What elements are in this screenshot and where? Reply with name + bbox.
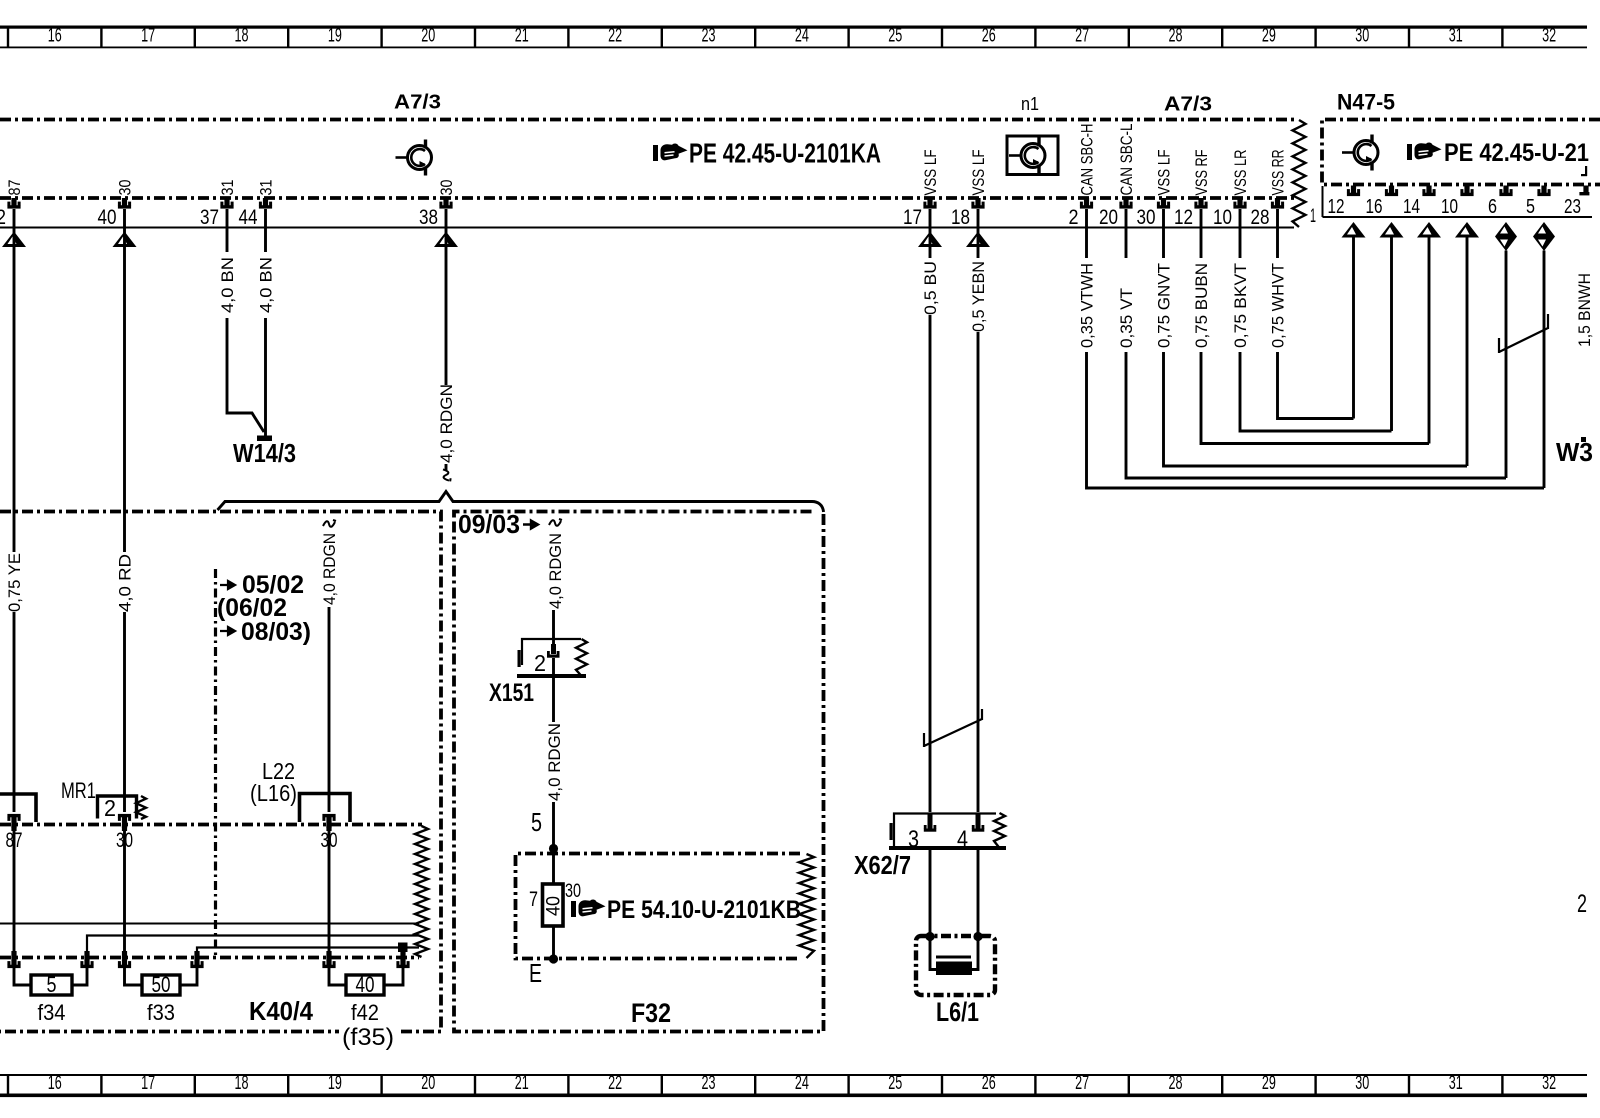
svg-text:E: E: [529, 958, 542, 988]
svg-text:(L16): (L16): [250, 780, 297, 806]
wires X62/7 to L6/1: [929, 850, 932, 936]
svg-text:A7/3: A7/3: [394, 91, 441, 114]
wire 0,75 GNVT routing: [1162, 209, 1165, 258]
sheet-reference arrow at x=978: [966, 232, 990, 248]
pin 20 of A7/3: [1119, 198, 1132, 209]
svg-text:W14/3: W14/3: [233, 438, 296, 468]
svg-text:30: 30: [116, 180, 135, 196]
A7/3 right edge zigzag: [1293, 120, 1306, 227]
pin on fuse row x=124.5: [118, 958, 131, 969]
svg-text:0,5 YEBN: 0,5 YEBN: [970, 261, 988, 332]
svg-text:22: 22: [608, 1073, 622, 1094]
svg-text:4,0 RD: 4,0 RD: [117, 554, 135, 612]
svg-text:30: 30: [1355, 1073, 1369, 1094]
pin 28 of A7/3: [1271, 198, 1284, 209]
hand + PE 42.45-U-2101KA: [653, 143, 688, 161]
svg-text:4,0 RDGN: 4,0 RDGN: [321, 533, 339, 605]
svg-text:PE 54.10-U-2101KB: PE 54.10-U-2101KB: [607, 896, 801, 924]
svg-text:25: 25: [888, 1073, 902, 1094]
wire pin87 A7/3 down: [13, 209, 16, 552]
svg-text:32: 32: [1542, 26, 1556, 47]
svg-text:30: 30: [565, 881, 581, 902]
N47-5 left pin bracket line: [1322, 186, 1324, 217]
fuse f34: [14, 968, 31, 985]
svg-text:30: 30: [1355, 26, 1369, 47]
sheet-reference arrow at x=124.5: [113, 232, 137, 248]
component A7/3 control unit box top edge: [0, 118, 1294, 122]
svg-text:31: 31: [1449, 1073, 1463, 1094]
variant divider 05/02 dash line: [214, 569, 217, 958]
wire pin17 down: [929, 209, 932, 258]
pin 12 of N47-5: [1347, 186, 1360, 197]
svg-text:44: 44: [239, 206, 258, 229]
svg-text:0,75 WHVT: 0,75 WHVT: [1270, 263, 1288, 348]
wire 0,75 BUBN routing: [1200, 209, 1203, 258]
svg-text:17: 17: [141, 26, 155, 47]
svg-text:30: 30: [437, 180, 456, 196]
svg-text:CAN SBC-H: CAN SBC-H: [1078, 124, 1097, 196]
continuation squiggle on RDGN branch in 09/03 box: [549, 519, 562, 526]
svg-text:28: 28: [1251, 206, 1270, 229]
svg-text:30: 30: [1137, 206, 1156, 229]
svg-text:26: 26: [982, 26, 996, 47]
internal vertical wires K40/4: [13, 830, 16, 952]
svg-text:28: 28: [1169, 26, 1183, 47]
svg-text:38: 38: [419, 206, 438, 229]
bus bar wires: [0, 923, 419, 925]
svg-text:16: 16: [48, 26, 62, 47]
junction on bus wire to f42: [398, 943, 408, 953]
wire 0,35 VTWH routing: [1085, 209, 1088, 258]
svg-text:1: 1: [1310, 206, 1316, 227]
svg-text:40: 40: [544, 896, 565, 916]
pin 16 of N47-5: [1385, 186, 1398, 197]
svg-text:27: 27: [1075, 1073, 1089, 1094]
svg-text:40: 40: [356, 972, 375, 997]
n1 screw box: [1007, 136, 1058, 175]
RDGN wire to L22: [323, 520, 336, 527]
svg-text:18: 18: [951, 206, 970, 229]
screw connection symbol in A7/3: [396, 140, 432, 176]
svg-text:40: 40: [98, 206, 117, 229]
wire pin37 down to W14/3: [226, 209, 229, 252]
svg-text:X151: X151: [489, 679, 534, 707]
svg-text:F32: F32: [631, 998, 671, 1028]
svg-text:19: 19: [328, 1073, 342, 1094]
svg-text:4,0 RDGN: 4,0 RDGN: [547, 533, 565, 609]
separation symbol across wires: [924, 709, 982, 747]
svg-text:27: 27: [1075, 26, 1089, 47]
svg-text:0,35 VTWH: 0,35 VTWH: [1079, 263, 1097, 348]
svg-text:16: 16: [48, 1073, 62, 1094]
svg-text:18: 18: [235, 1073, 249, 1094]
screw symbol in N47-5: [1342, 135, 1378, 171]
zigzag inner right edge K40/4: [415, 826, 428, 957]
MR1 connector box with 2: [98, 796, 137, 819]
svg-text:50: 50: [152, 972, 171, 997]
component N47-5 box: [1322, 120, 1600, 185]
svg-text:0,75 YE: 0,75 YE: [6, 553, 24, 612]
svg-text:29: 29: [1262, 1073, 1276, 1094]
junction dot F32 top: [549, 844, 558, 853]
svg-text:17: 17: [141, 1073, 155, 1094]
RDGN distribution wire: [218, 492, 824, 513]
svg-text:17: 17: [903, 206, 922, 229]
svg-text:22: 22: [608, 26, 622, 47]
svg-text:19: 19: [328, 26, 342, 47]
svg-text:n1: n1: [1021, 94, 1039, 114]
sheet-reference arrow at x=446: [434, 232, 458, 248]
bottom ruler: [0, 1073, 1587, 1097]
svg-text:W3: W3: [1556, 437, 1593, 467]
svg-text:VSS LF: VSS LF: [921, 150, 940, 196]
svg-text:28: 28: [1169, 1073, 1183, 1094]
pin on fuse row x=87: [80, 958, 93, 969]
K40/4 outer box top edge: [0, 512, 441, 1032]
svg-text:10: 10: [1213, 206, 1232, 229]
svg-text:12: 12: [1328, 195, 1345, 218]
double sheet-reference arrow at x=1506: [1495, 222, 1517, 251]
svg-text:L6/1: L6/1: [936, 997, 979, 1027]
pin 87 of K40/4: [7, 814, 20, 828]
svg-text:20: 20: [1099, 206, 1118, 229]
hand + PE 42.45-U-21: [1407, 142, 1442, 160]
pin 18 of A7/3: [971, 198, 984, 209]
ground point W14/3: [257, 436, 272, 442]
top ruler: [0, 26, 1587, 49]
svg-text:3: 3: [908, 826, 919, 853]
svg-text:4,0 RDGN: 4,0 RDGN: [438, 384, 456, 463]
pin on fuse row x=403: [396, 958, 409, 969]
svg-text:23: 23: [702, 26, 716, 47]
pin 40 of A7/3: [118, 198, 131, 209]
svg-text:0,75 GNVT: 0,75 GNVT: [1156, 263, 1174, 348]
svg-text:31: 31: [257, 180, 276, 196]
pin 2 of A7/3: [7, 198, 20, 209]
svg-text:29: 29: [1262, 26, 1276, 47]
svg-text:20: 20: [421, 1073, 435, 1094]
svg-text:4,0 BN: 4,0 BN: [258, 257, 276, 313]
svg-text:25: 25: [888, 26, 902, 47]
svg-text:20: 20: [421, 26, 435, 47]
svg-text:PE 42.45-U-2101KA: PE 42.45-U-2101KA: [689, 138, 881, 169]
svg-text:14: 14: [1403, 195, 1420, 218]
svg-text:4: 4: [957, 826, 968, 853]
X62/7 pin 4: [976, 813, 981, 829]
svg-text:4,0 BN: 4,0 BN: [219, 257, 237, 313]
lamp L6/1: [916, 936, 995, 995]
bracket at pin 87 K40/4: [0, 794, 36, 822]
connector X151: [522, 639, 581, 665]
svg-text:VSS LR: VSS LR: [1231, 150, 1250, 196]
L22 bracket: [300, 794, 351, 823]
svg-text:18: 18: [235, 26, 249, 47]
pin 2 of A7/3: [1080, 198, 1093, 209]
continuation squiggle: [442, 468, 451, 482]
svg-text:2: 2: [0, 206, 6, 229]
(f35) label: [339, 1024, 397, 1052]
wire 0,35 VT routing: [1125, 209, 1128, 258]
svg-text:16: 16: [1366, 195, 1383, 218]
X151 pin 2: [551, 644, 556, 654]
svg-text:5: 5: [47, 972, 57, 997]
pin 10 of A7/3: [1233, 198, 1246, 209]
pin 37 of A7/3: [220, 198, 233, 209]
fuse F32 40A: [543, 884, 564, 926]
svg-text:6: 6: [1488, 195, 1497, 218]
sheet-reference arrow at x=14: [2, 232, 26, 248]
wire 0,75 WHVT routing: [1276, 209, 1279, 258]
svg-text:08/03): 08/03): [241, 618, 311, 646]
svg-text:0,35 VT: 0,35 VT: [1118, 288, 1136, 348]
hand + PE 54.10-U-2101KB: [571, 899, 606, 917]
svg-text:23: 23: [1564, 195, 1581, 218]
pin 17 of A7/3: [923, 198, 936, 209]
svg-text:1,5 BNWH: 1,5 BNWH: [1576, 273, 1594, 347]
separation symbol N47-5 wires: [1499, 314, 1548, 353]
pin 30 of K40/4: [322, 814, 335, 828]
svg-text:2: 2: [1577, 890, 1587, 918]
sheet-reference arrow at x=930: [918, 232, 942, 248]
left bus line: [0, 227, 1294, 229]
svg-text:A7/3: A7/3: [1164, 93, 1212, 116]
svg-text:N47-5: N47-5: [1337, 90, 1395, 115]
wire X151 to F32: [552, 658, 555, 722]
svg-text:PE 42.45-U-21: PE 42.45-U-21: [1444, 139, 1589, 167]
K40/4 top pin row: [0, 823, 422, 827]
svg-text:5: 5: [1526, 195, 1535, 218]
svg-text:37: 37: [200, 206, 219, 229]
pin 44 of A7/3: [259, 198, 272, 209]
fuse f42: [329, 968, 346, 985]
component A7/3 bottom edge: [0, 196, 1294, 200]
svg-text:VSS RF: VSS RF: [1192, 150, 1211, 196]
wire pin38 down: [445, 209, 448, 385]
double sheet-reference arrow at x=1544: [1533, 222, 1555, 251]
svg-text:f42: f42: [351, 1000, 379, 1025]
svg-text:12: 12: [1174, 206, 1193, 229]
pin 23 of N47-5: [1583, 186, 1588, 194]
variant dates block: [220, 581, 235, 589]
svg-text:31: 31: [218, 180, 237, 196]
pin 12 of A7/3: [1194, 198, 1207, 209]
svg-text:0,75 BUBN: 0,75 BUBN: [1193, 263, 1211, 348]
svg-text:26: 26: [982, 1073, 996, 1094]
wire pin18 down: [977, 209, 980, 258]
right bus line under N47-5: [1323, 216, 1593, 218]
fuse f33: [125, 968, 143, 985]
svg-text:5: 5: [531, 807, 542, 837]
svg-text:2: 2: [1069, 206, 1079, 229]
pin 30 of A7/3: [1157, 198, 1170, 209]
X62/7 pin 3: [928, 813, 933, 829]
svg-text:0,75 BKVT: 0,75 BKVT: [1232, 263, 1250, 348]
wire 0,75 BKVT routing: [1239, 209, 1242, 258]
connector X62/7: [894, 814, 996, 847]
pin 5 of N47-5: [1537, 186, 1550, 197]
svg-text:32: 32: [1542, 1073, 1556, 1094]
pin 38 of A7/3: [439, 198, 452, 209]
K40/4 middle pin row: [0, 956, 419, 960]
svg-text:21: 21: [515, 1073, 529, 1094]
09/03 variant box: [454, 512, 824, 1032]
svg-text:MR1: MR1: [61, 778, 96, 803]
pin 30 of K40/4: [118, 814, 131, 828]
svg-text:K40/4: K40/4: [249, 996, 313, 1026]
svg-text:X62/7: X62/7: [854, 850, 911, 880]
pin on fuse row x=329: [322, 958, 335, 969]
svg-text:09/03: 09/03: [458, 509, 520, 539]
svg-text:0,5 BU: 0,5 BU: [922, 261, 940, 315]
svg-text:CAN SBC-L: CAN SBC-L: [1117, 124, 1136, 196]
svg-text:VSS LF: VSS LF: [1155, 150, 1174, 196]
svg-text:f34: f34: [38, 1000, 66, 1025]
pin on fuse row x=14: [7, 958, 20, 969]
wire pin44 down to W14/3: [264, 209, 267, 252]
svg-text:2: 2: [104, 795, 116, 821]
svg-text:10: 10: [1441, 195, 1458, 218]
svg-text:24: 24: [795, 26, 809, 47]
svg-text:2: 2: [534, 650, 546, 676]
svg-text:87: 87: [5, 180, 24, 196]
sheet-reference arrow at x=1429: [1417, 222, 1441, 238]
pin 14 of N47-5: [1422, 186, 1435, 197]
svg-text:4,0 RDGN: 4,0 RDGN: [546, 723, 564, 801]
svg-text:VSS RR: VSS RR: [1269, 150, 1288, 196]
sheet-reference arrow at x=1353.5: [1342, 222, 1366, 238]
F32 box: [516, 854, 801, 959]
wire below fuse + E: [552, 926, 555, 958]
svg-text:23: 23: [702, 1073, 716, 1094]
small mark right edge: [1581, 174, 1587, 176]
pin on fuse row x=197: [190, 958, 203, 969]
sheet-reference arrow at x=1391.5: [1380, 222, 1404, 238]
wire pin40 A7/3 down: [123, 209, 126, 552]
svg-text:31: 31: [1449, 26, 1463, 47]
svg-text:f33: f33: [147, 1000, 175, 1025]
pin 10 of N47-5: [1460, 186, 1473, 197]
wires up to N47-5 pins: [1352, 237, 1355, 419]
sheet-reference arrow at x=1467: [1455, 222, 1479, 238]
svg-text:7: 7: [529, 888, 538, 911]
svg-text:(f35): (f35): [342, 1024, 394, 1051]
svg-text:VSS LF: VSS LF: [969, 150, 988, 196]
pin 6 of N47-5: [1499, 186, 1512, 197]
svg-text:24: 24: [795, 1073, 809, 1094]
svg-text:21: 21: [515, 26, 529, 47]
